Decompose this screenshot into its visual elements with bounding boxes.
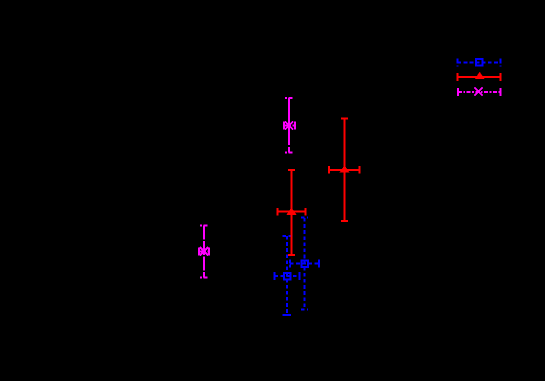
series3 magenta point M1 y-errorbar <box>285 98 293 153</box>
series3 magenta point M2 y-errorbar <box>200 225 208 277</box>
series2 red point R2 marker (filled triangle) <box>287 207 297 214</box>
legend sample series1 (blue dashed, open square) <box>458 58 501 66</box>
series1 blue point B1 marker (open square) <box>302 261 309 268</box>
series3 magenta point M2 marker (X cross) <box>200 247 208 255</box>
legend sample series3 (magenta dash-dot, X cross) <box>458 88 501 96</box>
series3 magenta point M1 marker (X cross) <box>285 121 293 129</box>
series2 red point R2 y-errorbar <box>288 170 295 255</box>
series2 red point R2 x-errorbar <box>278 208 306 216</box>
legend marker series1 (open square) <box>476 59 483 66</box>
series3 magenta point M2 x-errorbar <box>199 247 209 255</box>
series1 blue point B1 y-errorbar <box>301 218 308 310</box>
series2 red point R1 y-errorbar <box>341 119 348 221</box>
series2 red point R1 x-errorbar <box>329 166 360 174</box>
series2 red point R1 marker (filled triangle) <box>340 165 350 172</box>
series1 blue point B1 x-errorbar <box>290 259 319 267</box>
legend marker series2 (filled triangle) <box>475 72 485 79</box>
legend marker series3 (X cross) <box>474 87 482 95</box>
series1 blue point B2 y-errorbar <box>283 236 292 315</box>
legend sample series2 (red solid, filled triangle) <box>458 73 501 81</box>
series1 blue point B2 marker (open square) <box>284 273 291 280</box>
series1 blue point B2 x-errorbar <box>275 272 300 280</box>
series3 magenta point M1 x-errorbar <box>284 122 295 130</box>
